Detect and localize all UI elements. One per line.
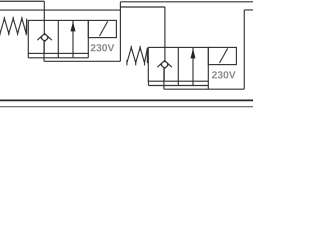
wire right riser [243, 10, 245, 89]
wire valve V1 return line [44, 60, 120, 62]
valve V1 check valve lower vee [41, 37, 49, 41]
valve V1 flow arrow [71, 20, 76, 53]
valve V2 body [148, 47, 208, 81]
wire valve V1 bottom port stub [43, 42, 45, 62]
valve V1 check valve seat [37, 34, 52, 41]
wire valve V2 arrow bottom stub [192, 81, 194, 85]
wire junction riser x=120.4 [119, 2, 121, 62]
wire valve V1 divider bottom stub [57, 53, 59, 57]
valve V2 spring [127, 46, 147, 66]
valve V2 check valve lower vee [161, 64, 169, 68]
valve V1 check valve lower stem [43, 42, 45, 54]
solenoid coil Y2 diagonal [220, 48, 228, 63]
wire valve V1 top port line [43, 1, 45, 33]
wire valve V2 bottom port stub [163, 69, 165, 90]
wire valve V1 arrow bottom stub [72, 53, 74, 57]
valve V2 check valve seat [157, 61, 172, 68]
wire valve V2 under-rail [149, 85, 209, 87]
wire valve V1 under-rail [28, 57, 88, 59]
valve V2 position divider [177, 47, 179, 81]
separator rule thin [0, 106, 253, 108]
wire lower-left supply rail [0, 9, 120, 11]
wire valve V2 top port line [164, 7, 166, 61]
wire valve V2 return line [164, 88, 244, 90]
separator rule thick [0, 99, 253, 101]
valve V2 check valve poppet circle [162, 62, 168, 68]
solenoid coil Y1 box [88, 20, 116, 37]
wire valve V2 divider bottom stub [177, 81, 179, 85]
valve V1 check valve poppet circle [42, 35, 48, 41]
valve V1 position divider [57, 20, 59, 53]
wire upper-left supply rail [0, 0, 44, 2]
valve V2 flow arrow [191, 47, 196, 81]
wire valve V2 left bottom stub [148, 81, 150, 85]
solenoid coil Y2 box [208, 47, 236, 64]
solenoid coil Y1 diagonal [100, 21, 108, 36]
valve V2 check valve lower stem [163, 69, 165, 82]
value label 230V (valve V1) [91, 44, 115, 51]
value label 230V (valve V2) [212, 71, 236, 78]
wire right edge rail [244, 9, 253, 11]
valve V1 body [28, 20, 88, 53]
valve V1 spring [0, 17, 27, 36]
wire valve V1 left bottom stub [27, 53, 29, 57]
wire valve V2 right bottom stub [207, 81, 209, 89]
wire valve V1 right bottom stub [87, 53, 89, 57]
wire branch to valve V2 [120, 6, 164, 8]
wire upper-right rail [120, 1, 253, 3]
